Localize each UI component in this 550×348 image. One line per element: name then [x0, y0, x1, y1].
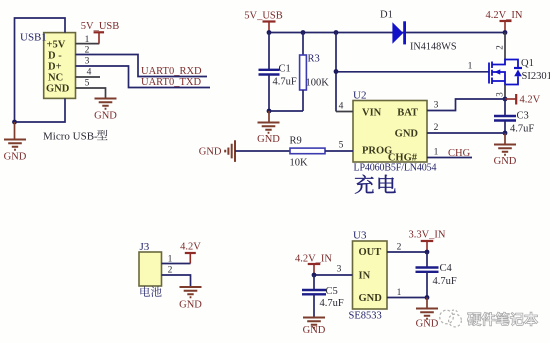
U3 pin name OUT — [359, 247, 382, 258]
junction VIN branch / gate wire — [334, 69, 339, 74]
svg-text:SE8533: SE8533 — [349, 311, 382, 322]
wire 5V rail horizontal — [269, 32, 505, 34]
ground symbol below C1 — [257, 123, 280, 146]
power 4.2V_IN at U3 input — [295, 254, 332, 276]
IC U3 designator — [353, 230, 367, 242]
U3 pin 2 wire (OUT) — [387, 251, 427, 253]
power 4.2V_IN top right — [485, 10, 522, 33]
wire VIN branch vertical — [335, 33, 337, 112]
svg-text:GND: GND — [303, 325, 326, 336]
svg-text:SI2301: SI2301 — [522, 71, 550, 82]
IC U2 body — [353, 101, 427, 163]
label D1 value IN4148WS — [410, 42, 457, 53]
svg-text:UART0_RXD: UART0_RXD — [141, 66, 202, 77]
power 5V_USB at USB1 pin1 — [81, 21, 120, 44]
svg-text:3: 3 — [434, 101, 439, 111]
junction 4.2V_IN / C5 — [312, 273, 317, 278]
USB1 pin name GND — [46, 84, 70, 95]
label D1 — [380, 10, 393, 21]
svg-text:C4: C4 — [440, 263, 453, 274]
U2 pin name PROG — [362, 146, 392, 157]
U2 pin number 1 — [434, 148, 439, 158]
USB1 pin 4 stub (NC) — [76, 76, 101, 78]
capacitor C5 — [302, 275, 326, 318]
U3 pin name IN — [359, 271, 371, 282]
net label UART0_TXD — [141, 77, 201, 88]
svg-text:IN: IN — [359, 271, 371, 282]
svg-text:D1: D1 — [380, 10, 393, 21]
svg-text:D+: D+ — [48, 62, 62, 73]
USB1 pin name NC — [48, 73, 63, 84]
svg-text:1: 1 — [397, 288, 402, 298]
label Q1 value SI2301 — [522, 71, 550, 82]
svg-text:3.3V_IN: 3.3V_IN — [408, 230, 445, 241]
svg-text:4.2V_IN: 4.2V_IN — [485, 10, 522, 21]
connector USB1 body — [44, 33, 76, 99]
svg-text:Q1: Q1 — [521, 58, 534, 69]
label R3 — [308, 54, 320, 65]
ground symbol below C4 — [416, 309, 439, 330]
label Q1 — [521, 58, 534, 69]
label Micro USB-型 — [43, 130, 108, 143]
label C4 value 4.7uF — [433, 276, 457, 287]
svg-text:C3: C3 — [517, 111, 529, 122]
U2 pin name GND — [395, 129, 419, 140]
label 电池 (battery) — [140, 286, 161, 297]
net label CHG — [448, 148, 471, 159]
U2 pin name VIN — [362, 108, 382, 119]
svg-text:U3: U3 — [353, 230, 367, 242]
U3 pin number 1 — [397, 288, 402, 298]
U2 pin number 4 — [339, 102, 344, 112]
label C4 — [440, 263, 453, 274]
label C1 value 4.7uF — [273, 77, 297, 88]
USB1 pin name D- — [48, 51, 62, 62]
ground symbol below C3 — [494, 145, 517, 168]
svg-text:OUT: OUT — [359, 247, 382, 258]
svg-text:C1: C1 — [279, 64, 291, 75]
svg-text:4.7uF: 4.7uF — [433, 276, 457, 287]
junction 5V rail / Q1 drain — [503, 30, 508, 35]
svg-text:4.7uF: 4.7uF — [510, 124, 534, 135]
svg-text:4.2V_IN: 4.2V_IN — [295, 254, 332, 265]
svg-text:5V_USB: 5V_USB — [244, 11, 283, 22]
junction USB shell/ground — [12, 120, 17, 125]
svg-text:4.7uF: 4.7uF — [320, 298, 344, 309]
svg-text:3: 3 — [85, 57, 90, 67]
svg-text:BAT: BAT — [397, 108, 418, 119]
USB1 pin 3 wire (D+) — [76, 66, 211, 88]
U3 pin number 3 — [337, 265, 342, 275]
junction 5V rail / R3 — [301, 30, 306, 35]
junction C4 / U3 GND — [425, 295, 430, 300]
ground symbol at USB1 pin5 — [94, 99, 117, 122]
svg-text:GND: GND — [46, 84, 70, 95]
J3 pin number 1 — [168, 255, 173, 265]
junction C3 / GND wire — [503, 131, 508, 136]
label R9 value 10K — [290, 158, 309, 169]
U3 pin 1 wire (GND) — [387, 297, 427, 299]
svg-text:4.2V: 4.2V — [520, 95, 541, 106]
svg-text:C5: C5 — [326, 286, 338, 297]
connector J3 designator — [140, 241, 150, 253]
junction 3.3V_IN / C4 — [425, 250, 430, 255]
svg-text:2: 2 — [495, 45, 505, 50]
svg-text:D -: D - — [48, 51, 62, 62]
capacitor C1 — [259, 33, 280, 112]
wire Q1 source down — [504, 85, 506, 100]
svg-text:GND: GND — [94, 111, 117, 122]
watermark text 硬件笔记本 — [467, 312, 538, 326]
svg-text:CHG: CHG — [448, 148, 471, 159]
svg-text:10K: 10K — [290, 158, 309, 169]
svg-text:Micro USB-: Micro USB- — [43, 131, 98, 143]
U3 pin number 2 — [397, 243, 402, 253]
net label UART0_RXD — [141, 66, 202, 77]
svg-text:+5V: +5V — [47, 40, 66, 51]
wire junction to ground below C3 — [504, 133, 506, 145]
wire R9 to U2 PROG — [325, 150, 353, 152]
svg-text:100K: 100K — [306, 78, 330, 89]
U2 pin 3 wire to battery node — [427, 99, 505, 111]
IC U3 body — [353, 241, 388, 309]
svg-text:GND: GND — [494, 156, 517, 167]
svg-text:GND: GND — [4, 152, 27, 163]
U2 pin number 5 — [339, 141, 344, 151]
J3 pin 1 wire — [162, 263, 191, 265]
USB1 pin 2 wire (D-) — [76, 55, 208, 77]
svg-text:GND: GND — [416, 319, 439, 330]
IC U2 designator — [353, 90, 366, 102]
transistor Q1 (P-MOSFET SI2301) — [489, 60, 522, 85]
power 4.2V at J3 — [180, 242, 201, 264]
wire Q1 gate from VIN branch — [336, 71, 489, 73]
junction C1/R3 ground — [267, 109, 272, 114]
Q1 pin number 3 (rotated) — [495, 92, 505, 97]
svg-text:4: 4 — [339, 102, 344, 112]
diode D1 — [392, 21, 404, 44]
svg-text:1: 1 — [468, 62, 473, 72]
U3 pin name GND — [359, 293, 383, 304]
label U3 part number SE8533 — [349, 311, 382, 322]
svg-text:1: 1 — [434, 148, 439, 158]
label C5 — [326, 286, 338, 297]
svg-text:UART0_TXD: UART0_TXD — [141, 77, 201, 88]
power ground (bar style) at R9 — [199, 140, 235, 162]
capacitor C4 — [416, 252, 439, 298]
label C3 — [517, 111, 529, 122]
svg-text:3: 3 — [495, 92, 505, 97]
USB1 pin 1 stub — [76, 43, 100, 45]
U2 pin 2 wire — [427, 132, 505, 134]
svg-text:2: 2 — [168, 266, 173, 276]
svg-text:GND: GND — [179, 300, 202, 311]
svg-text:VIN: VIN — [362, 108, 382, 119]
label C3 value 4.7uF — [510, 124, 534, 135]
USB1 pin number 2 — [85, 46, 90, 56]
power 3.3V_IN at U3 output — [408, 230, 445, 253]
junction 5V rail / VIN branch — [334, 30, 339, 35]
svg-text:3: 3 — [337, 265, 342, 275]
resistor R9 — [290, 148, 325, 154]
wire Q1 drain — [504, 33, 506, 60]
wire junction to ground below C4 — [426, 298, 428, 309]
power 5V_USB rail symbol — [244, 11, 283, 33]
USB1 pin number 3 — [85, 57, 90, 67]
svg-text:GND: GND — [199, 147, 222, 158]
svg-text:R9: R9 — [290, 136, 302, 147]
svg-text:R3: R3 — [308, 54, 320, 65]
svg-text:J3: J3 — [140, 241, 150, 253]
capacitor C3 — [494, 99, 516, 133]
USB1 pin name +5V — [47, 40, 66, 51]
ground symbol below C5 — [303, 318, 326, 337]
svg-text:GND: GND — [359, 293, 383, 304]
svg-text:IN4148WS: IN4148WS — [410, 42, 457, 53]
svg-text:USB1: USB1 — [20, 32, 47, 44]
J3 pin number 2 — [168, 266, 173, 276]
svg-text:GND: GND — [257, 134, 280, 145]
connector J3 body — [139, 252, 162, 286]
svg-text:2: 2 — [434, 123, 439, 133]
label C5 value 4.7uF — [320, 298, 344, 309]
svg-text:4.7uF: 4.7uF — [273, 77, 297, 88]
label C1 — [279, 64, 291, 75]
svg-text:LP4060B5F/LN4054: LP4060B5F/LN4054 — [354, 163, 437, 174]
USB1 pin name D+ — [48, 62, 62, 73]
junction 5V rail / C1 — [267, 30, 272, 35]
svg-text:5V_USB: 5V_USB — [81, 21, 120, 32]
wire shell junction to ground — [14, 122, 16, 140]
label R9 — [290, 136, 302, 147]
label U2 part number LP4060B5F/LN4054 — [354, 163, 437, 174]
svg-text:GND: GND — [395, 129, 419, 140]
wire junction to ground — [268, 111, 270, 123]
U3 pin 3 wire (IN) — [314, 274, 353, 276]
U2 pin 1 wire (CHG) — [427, 157, 472, 159]
connector USB1 designator label — [20, 32, 47, 44]
svg-text:5: 5 — [339, 141, 344, 151]
wire GND bar to R9 — [235, 150, 290, 152]
svg-text:1: 1 — [168, 255, 173, 265]
resistor R3 — [300, 33, 307, 112]
U2 pin name CHG# — [388, 153, 418, 164]
USB1 pin number 5 — [85, 79, 90, 89]
label R3 value 100K — [306, 78, 330, 89]
svg-text:NC: NC — [48, 73, 63, 84]
USB1 pin 5 stub to ground — [76, 88, 106, 99]
USB1 pin number 4 — [87, 68, 92, 78]
USB1 shell wire to ground — [15, 18, 66, 122]
J3 pin 2 wire — [162, 275, 191, 287]
junction Q1 source node — [503, 97, 508, 102]
USB1 pin number 1 — [85, 35, 90, 45]
svg-text:5: 5 — [85, 79, 90, 89]
U2 pin 4 wire — [336, 111, 353, 113]
svg-text:U2: U2 — [353, 90, 366, 102]
wire C1/R3 bottom join — [269, 110, 303, 112]
ground symbol bottom-left — [4, 140, 27, 163]
Q1 gate pin number 1 — [468, 62, 473, 72]
watermark logo circle — [440, 310, 462, 327]
svg-text:4.2V: 4.2V — [180, 242, 201, 253]
svg-text:4: 4 — [87, 68, 92, 78]
svg-text:2: 2 — [397, 243, 402, 253]
Q1 pin number 2 (rotated) — [495, 45, 505, 50]
U2 pin number 3 — [434, 101, 439, 111]
power 4.2V bar at Q1 source — [505, 94, 541, 106]
ground symbol at J3 pin2 — [179, 287, 202, 311]
U2 pin number 2 — [434, 123, 439, 133]
U2 pin name BAT — [397, 108, 418, 119]
title 充电 (charging) — [355, 175, 396, 194]
